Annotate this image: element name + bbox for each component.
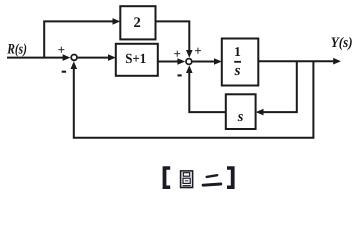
value 1/s fraction bar <box>234 61 241 63</box>
svg-text:Y(s): Y(s) <box>331 35 353 51</box>
wire junction 2 to block 1/s <box>193 61 215 63</box>
arrowhead into junction 2 from top <box>186 50 193 58</box>
caption glyph tu (figure) <box>181 171 193 188</box>
svg-text:S+1: S+1 <box>125 52 146 67</box>
wire block s output to junction 2 <box>189 72 226 112</box>
caption bracket left <box>163 166 171 189</box>
svg-text:2: 2 <box>134 15 141 31</box>
block S+1 <box>116 44 158 76</box>
wire R(s) input to summing junction 1 <box>7 57 64 59</box>
summing junction 1 <box>71 55 77 61</box>
wire block 2 output down to junction 2 <box>156 21 190 50</box>
arrowhead into block s <box>256 109 264 116</box>
arrowhead into block 2 <box>113 18 121 25</box>
summing junction 2 <box>186 59 192 65</box>
svg-text:1: 1 <box>234 44 241 59</box>
wire outer feedback loop <box>74 61 314 138</box>
wire 1/s output to Y(s) <box>258 60 334 62</box>
svg-text:+: + <box>58 42 65 57</box>
arrowhead into block S+1 <box>108 54 116 61</box>
wire branch up to block 2 <box>44 21 113 57</box>
svg-text:+: + <box>194 43 201 58</box>
block 2 <box>120 6 155 39</box>
wire S+1 to junction 2 <box>158 61 179 63</box>
svg-text:s: s <box>237 109 244 125</box>
arrowhead into junction 1 <box>63 54 71 61</box>
caption glyph er (two) <box>203 175 221 185</box>
sign minus at junction 2 <box>178 74 182 76</box>
arrowhead into junction 2 from left <box>177 58 185 65</box>
arrowhead into block 1/s <box>214 58 222 65</box>
svg-text:s: s <box>234 63 241 79</box>
sign minus at junction 1 <box>62 71 66 73</box>
wire branch down to block s <box>263 61 297 112</box>
wire junction 1 to block S+1 <box>78 57 109 59</box>
svg-text:R(s): R(s) <box>6 41 27 57</box>
arrowhead into junction 1 from bottom <box>71 61 78 69</box>
block 1/s <box>222 39 258 86</box>
arrowhead into junction 2 from bottom <box>186 65 193 73</box>
block s <box>226 94 256 129</box>
arrowhead output Y(s) <box>333 58 341 65</box>
caption bracket right <box>227 166 235 189</box>
svg-text:+: + <box>173 46 180 61</box>
